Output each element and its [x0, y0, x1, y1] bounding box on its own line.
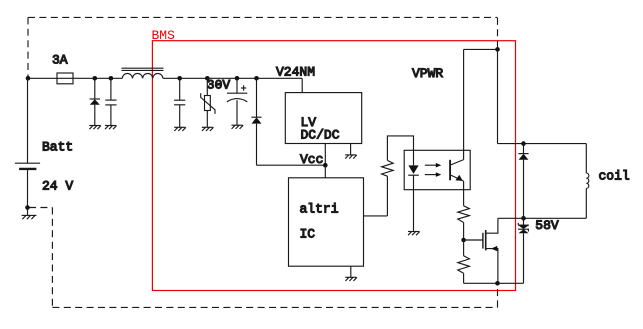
ground below C1	[105, 126, 117, 130]
opto light arrow 2	[425, 172, 442, 177]
node: source/bottom rail junction	[495, 281, 500, 286]
svg-text:altri: altri	[300, 202, 339, 217]
wire: VPWR down right side	[497, 49, 499, 143]
pin: U2 ground	[350, 266, 352, 277]
wire: main 24V rail left segment	[28, 77, 122, 79]
node: gate node	[461, 238, 466, 243]
enclosure dashed right lower	[497, 284, 499, 308]
wire: bottom rail	[464, 282, 524, 284]
wire: main 24V rail right segment	[163, 77, 302, 79]
ground below opto LED	[408, 232, 420, 236]
electrolytic capacitor C3 (polarized)	[227, 78, 247, 125]
node: electrolytic C3 junction	[235, 76, 240, 81]
wire: to coil top node	[498, 143, 524, 145]
enclosure dashed left lower	[51, 208, 53, 308]
capacitor C1	[105, 78, 116, 125]
capacitor C2	[174, 78, 185, 127]
node: battery top rail junction	[26, 76, 31, 81]
node: battery minus	[25, 205, 30, 210]
opto LED (anode top)	[408, 150, 419, 231]
LV DC/DC converter U1	[285, 93, 361, 144]
label + polarity	[241, 85, 246, 90]
wire: gate node to MOSFET gate	[464, 239, 484, 241]
opto phototransistor Q1	[450, 160, 464, 182]
resistor R2 (emitter)	[458, 206, 470, 240]
wire: phototransistor collector up	[463, 49, 465, 159]
svg-text:BMS: BMS	[152, 28, 176, 43]
svg-text:coil: coil	[599, 169, 630, 184]
node VPWR corner	[495, 47, 500, 52]
svg-text:58V: 58V	[535, 218, 559, 233]
TVS D4 58V (bidirectional)	[518, 218, 529, 283]
opto light arrow 1	[425, 163, 442, 168]
enclosure dashed from battery minus	[29, 207, 52, 209]
svg-text:24 V: 24 V	[42, 178, 73, 193]
pin: U1 ground	[350, 144, 352, 155]
ground below RV1	[202, 127, 214, 131]
optocoupler U3 box	[404, 150, 470, 189]
ground below U1	[345, 155, 357, 159]
node: capacitor C1 junction	[109, 76, 114, 81]
resistor R1 (LED series)	[382, 136, 414, 216]
enclosure dashed boundary top	[28, 16, 498, 18]
svg-text:V24NM: V24NM	[276, 65, 315, 80]
node Vcc	[323, 163, 328, 168]
diode D3 freewheel (cathode up)	[518, 144, 528, 219]
resistor R3 (gate pulldown)	[458, 240, 470, 283]
diode D2 (cathode up, to Vcc)	[251, 78, 261, 165]
node A (coil top)	[521, 141, 526, 146]
wire: phototransistor emitter down	[463, 181, 465, 206]
pin: U2 output	[364, 215, 388, 217]
BMS box (red)	[152, 41, 515, 291]
node: diode D1 junction	[93, 76, 98, 81]
svg-text:Batt: Batt	[42, 139, 73, 154]
ground below D1	[89, 126, 101, 130]
altri IC U2	[289, 178, 364, 266]
enclosure dashed boundary right upper	[497, 18, 499, 49]
varistor RV1 30V	[201, 78, 215, 127]
pin: U1 output to Vcc	[324, 144, 326, 166]
enclosure dashed bottom	[52, 306, 497, 308]
node B (switched node)	[521, 216, 526, 221]
wire: D2 to Vcc node	[257, 164, 326, 166]
ground below C2	[174, 127, 186, 131]
ground at battery minus	[22, 208, 37, 220]
node: varistor RV1 junction	[205, 76, 210, 81]
inductor L1 (choke with core)	[122, 68, 164, 78]
svg-text:3A: 3A	[52, 53, 68, 68]
wire: node A to coil	[524, 143, 587, 145]
wire: drain to node B	[498, 217, 524, 219]
wire: coil bottom to node B	[524, 217, 587, 219]
node: diode D2 junction	[254, 76, 259, 81]
battery Batt 24V	[15, 78, 40, 207]
MOSFET Q2	[483, 218, 498, 283]
wire: rail corner down to LV DC/DC input	[301, 78, 303, 92]
svg-text:Vcc: Vcc	[300, 152, 323, 167]
wire: Vcc node to altri IC	[324, 165, 326, 178]
enclosure dashed boundary left	[27, 17, 29, 78]
diode D1 (clamp, cathode up)	[90, 78, 100, 125]
svg-text:30V: 30V	[207, 77, 231, 92]
fuse F1 3A	[57, 73, 73, 84]
svg-text:IC: IC	[300, 227, 316, 242]
ground below C3	[232, 125, 244, 129]
wire: collector to VPWR corner	[464, 48, 498, 50]
svg-text:VPWR: VPWR	[412, 66, 443, 81]
node: capacitor C2 junction	[177, 76, 182, 81]
svg-text:DC/DC: DC/DC	[301, 128, 340, 143]
coil L2	[586, 144, 589, 219]
ground below U2	[345, 277, 357, 281]
